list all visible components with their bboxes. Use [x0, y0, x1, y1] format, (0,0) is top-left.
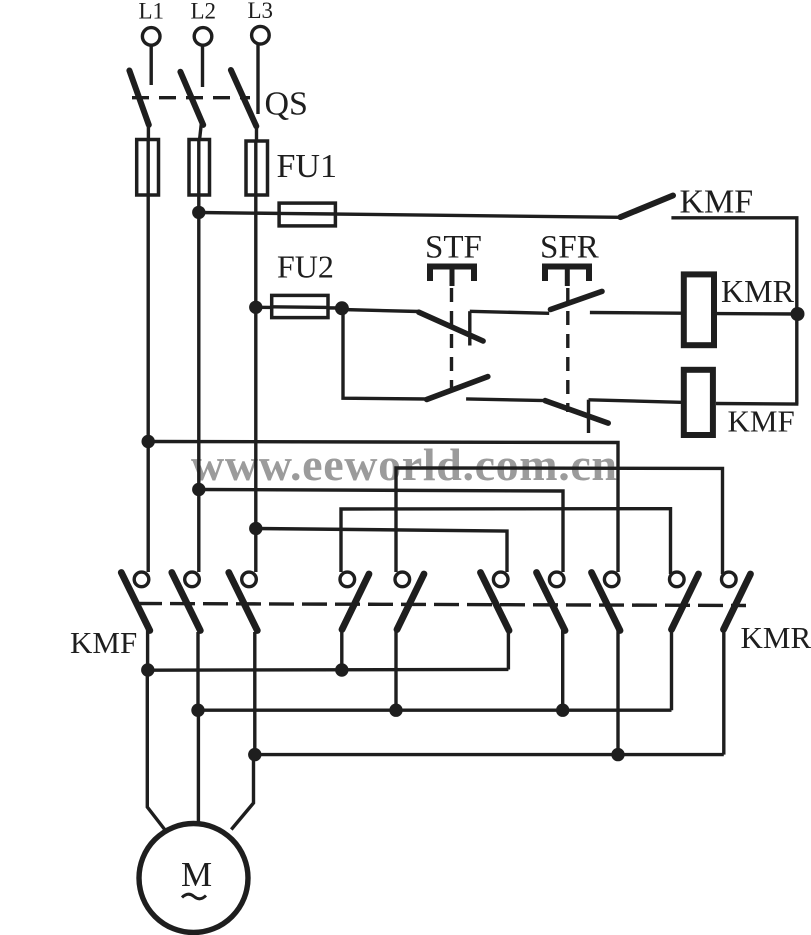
- motor M circle: [139, 824, 248, 933]
- contact KMF pole1 blade: [121, 573, 150, 631]
- wire KMR pole1 lead: [507, 628, 510, 670]
- wire L2 vertical: [197, 150, 200, 572]
- svg-text:L3: L3: [248, 0, 274, 23]
- wire row2 middle: [466, 399, 545, 401]
- wire SFR to KMR coil: [590, 311, 681, 315]
- wire QS1 to FU1a: [147, 122, 150, 141]
- contact KMF pole1 hook: [134, 572, 149, 587]
- wire L3 tap to contact6: [256, 529, 507, 573]
- svg-text:FU2: FU2: [277, 249, 334, 285]
- svg-text:KMF: KMF: [70, 625, 137, 660]
- svg-text:SFR: SFR: [540, 230, 599, 266]
- svg-text:FU1: FU1: [277, 148, 337, 185]
- contact KMR pole4 blade: [672, 574, 699, 630]
- wire L2 tap to contact7: [199, 490, 563, 573]
- fuse on KMF line: [279, 203, 335, 226]
- svg-text:M: M: [181, 855, 212, 894]
- button STF NC blade: [419, 312, 483, 341]
- junction dot right rail: [791, 307, 805, 321]
- wire crossover c4/c9 tops: [341, 509, 671, 574]
- contact KMR pole4 hook: [670, 572, 685, 587]
- contact SFR NO blade row1: [551, 291, 603, 309]
- wire L3 vertical: [254, 150, 257, 572]
- wire SFR to KMF coil: [589, 400, 682, 403]
- motor tilde: [182, 894, 206, 899]
- button STF NC right terminal: [468, 311, 471, 345]
- junction dot L3 lower tap: [249, 522, 262, 535]
- wire KMR pole3 lead: [616, 628, 619, 755]
- contact KMR pole3 blade: [592, 573, 621, 631]
- node L2 terminal: [194, 28, 212, 46]
- switch QS pole 1 blade: [129, 71, 148, 125]
- wire KMF pole2 lead: [196, 632, 199, 712]
- wire L1 vertical: [146, 150, 149, 572]
- svg-text:KMR: KMR: [721, 273, 795, 309]
- bus W (motor terminal 3): [254, 753, 724, 756]
- junction dot L1 tap: [142, 435, 155, 448]
- wire KMR pole4 lead: [670, 626, 673, 710]
- wire FU2 branch from L3: [256, 306, 342, 310]
- contact KMF pole2 blade: [172, 573, 201, 631]
- coil KMF: [684, 370, 713, 435]
- junction dot bus V / KMR pole2: [556, 704, 569, 717]
- contact KMR pole5 hook: [722, 572, 737, 587]
- svg-text:KMF: KMF: [728, 404, 795, 439]
- contact KMR pole1 hook: [493, 572, 508, 587]
- switch QS pole 2 blade: [180, 72, 203, 125]
- svg-text:QS: QS: [265, 86, 308, 123]
- wire through FU1 fuses: [146, 140, 149, 196]
- wire aux contact to right rail: [671, 218, 796, 404]
- svg-text:L1: L1: [139, 0, 165, 24]
- switch QS pole 3 blade: [231, 70, 256, 126]
- bus V (motor terminal 2): [198, 709, 672, 712]
- button SFR NC blade row2: [545, 401, 608, 424]
- wire row1 to STF: [342, 310, 419, 312]
- wire control node down to row2: [343, 308, 427, 399]
- contact KMF pole2 hook: [185, 572, 200, 587]
- wire L3 stem: [256, 44, 259, 114]
- wire control feed from L2: [199, 213, 621, 218]
- wire KMF pole3 lead: [253, 632, 256, 756]
- svg-text:STF: STF: [425, 230, 482, 266]
- bus U (motor terminal 1): [147, 668, 509, 672]
- contact KMF pole4 hook: [340, 572, 355, 587]
- fuse FU1 c: [246, 141, 268, 195]
- junction dot bus W / pole3: [248, 748, 261, 761]
- junction dot bus U / pole1: [141, 663, 154, 676]
- contact KMR pole2 blade: [537, 573, 566, 631]
- contact KMF auxiliary blade: [620, 196, 673, 218]
- junction dot L3 tap: [249, 301, 262, 314]
- wire KMR pole5 lead: [722, 628, 725, 755]
- button SFR NC right terminal: [587, 400, 590, 433]
- contactor linkage dashed: [137, 604, 746, 606]
- svg-text:L2: L2: [191, 0, 217, 24]
- fuse FU2: [272, 295, 328, 317]
- wire crossover c5/c10 tops: [396, 468, 723, 574]
- button STF cap: [430, 267, 474, 282]
- wire motor lead W: [231, 755, 253, 830]
- wire QS2 to FU1b: [199, 122, 201, 141]
- fuse FU1 b: [189, 140, 210, 196]
- contact KMF pole5 blade: [397, 574, 424, 630]
- wire QS3 to FU1c: [255, 123, 258, 142]
- junction dot bus V / pole5: [389, 704, 402, 717]
- wire KMR coil to rail: [717, 312, 798, 316]
- contact KMF pole4 blade: [342, 574, 369, 630]
- button SFR cap: [545, 267, 589, 282]
- wire STF to SFR row1: [470, 311, 549, 313]
- button SFR link dashed: [566, 288, 569, 412]
- wire motor lead U: [147, 670, 164, 830]
- svg-text:KMR: KMR: [741, 620, 811, 655]
- wire KMF coil to rail: [716, 402, 798, 406]
- node L1 terminal: [142, 28, 160, 46]
- contact KMR pole1 blade: [481, 573, 510, 631]
- contact KMR pole3 hook: [604, 572, 619, 587]
- contact KMF pole3 blade: [229, 573, 257, 631]
- wire KMF pole5 lead: [394, 629, 397, 710]
- junction dot L2 tap: [192, 206, 205, 219]
- fuse FU1 a: [137, 140, 159, 196]
- contact KMR pole2 hook: [549, 572, 564, 587]
- wire KMR pole2 lead: [561, 628, 564, 710]
- wire KMF pole4 lead: [340, 629, 343, 670]
- button STF link dashed: [450, 288, 453, 392]
- contact KMF pole5 hook: [395, 572, 410, 587]
- junction dot bus U / pole4: [335, 663, 348, 676]
- wire L1 tap to contact8: [148, 442, 618, 573]
- junction dot control node: [335, 301, 349, 315]
- junction dot bus V / pole2: [191, 704, 204, 717]
- junction dot L2 lower tap: [192, 483, 205, 496]
- wire L2 stem: [201, 45, 204, 87]
- contact KMF pole3 hook: [242, 572, 257, 587]
- junction dot bus W / KMR pole3: [611, 748, 624, 761]
- svg-text:KMF: KMF: [680, 184, 754, 221]
- coil KMR: [684, 274, 714, 345]
- contact KMR pole5 blade: [724, 574, 751, 630]
- wire L1 stem: [149, 45, 152, 85]
- wire KMF pole1 lead: [146, 628, 149, 672]
- wire motor lead V: [197, 710, 200, 824]
- button STF NO blade row2: [427, 377, 488, 400]
- switch QS linkage dashed: [132, 96, 250, 99]
- node L3 terminal: [252, 26, 270, 44]
